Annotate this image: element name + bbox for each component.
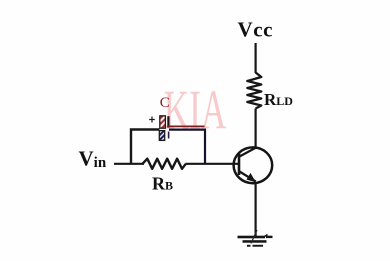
- svg-text:Vcc: Vcc: [238, 18, 274, 42]
- wire: [114, 163, 144, 165]
- svg-text:Vin: Vin: [79, 147, 107, 172]
- wire: [186, 163, 239, 165]
- svg-text:KIA: KIA: [164, 79, 227, 141]
- svg-text:RLD: RLD: [264, 90, 293, 109]
- transistor Q1: [234, 147, 273, 183]
- wire: [255, 43, 257, 73]
- wire: [255, 109, 257, 149]
- svg-text:RB: RB: [152, 174, 173, 194]
- wire: [169, 129, 206, 131]
- wire: [167, 125, 205, 127]
- ground: [238, 230, 273, 247]
- wire: [255, 183, 257, 236]
- resistor RLD: [247, 73, 293, 110]
- capacitor C1: [149, 95, 170, 140]
- wire: [204, 129, 206, 165]
- svg-text:C: C: [160, 95, 170, 111]
- resistor RB: [143, 159, 186, 194]
- wire: [131, 130, 160, 164]
